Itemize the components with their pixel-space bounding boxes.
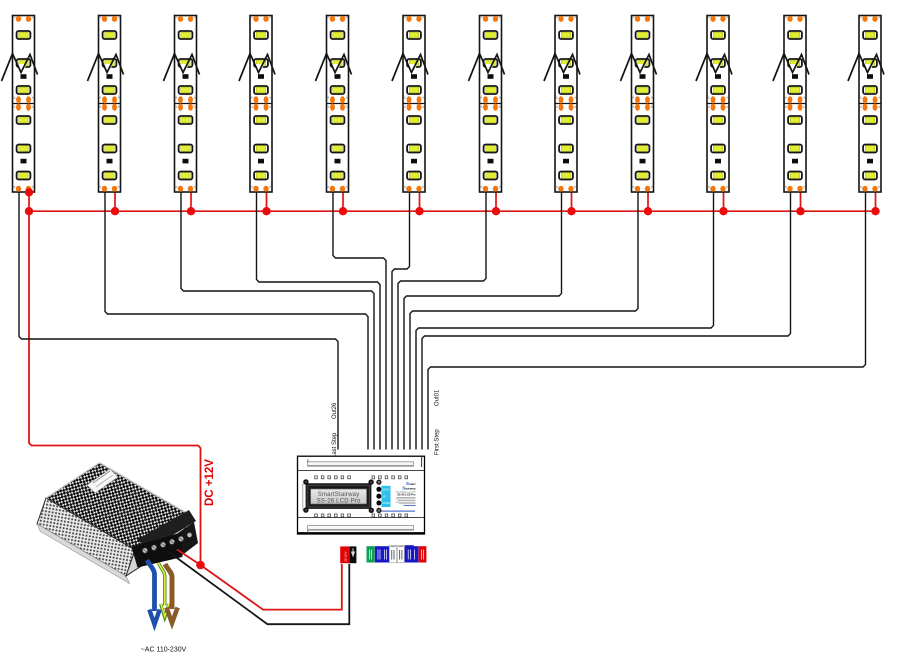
wire: strip 12 red +12V stub <box>875 190 877 211</box>
junction dot: strip 12 on +12V bus <box>871 207 879 215</box>
power supply PSU1 <box>37 463 198 584</box>
brand logo <box>402 481 416 491</box>
wire: strip 3 red +12V stub <box>190 190 192 211</box>
LED strip 8 <box>544 16 580 193</box>
terminal comb bottom <box>315 514 408 517</box>
junction dot: strip 7 on +12V bus <box>492 207 500 215</box>
wire: strip 6 output black wire to controller <box>392 190 410 450</box>
wire: red +12V feed from bus to power supply <box>29 211 201 565</box>
wire: strip 7 red +12V stub <box>495 190 497 211</box>
svg-text:DOWN: DOWN <box>382 502 390 505</box>
PSU front-left vented face <box>37 498 135 576</box>
wire: strip 5 output black wire to controller <box>333 190 386 450</box>
LED strip 6 <box>392 16 428 193</box>
panel screws <box>376 480 381 513</box>
wire: GND black PSU to controller <box>170 553 350 625</box>
LED strip 3 <box>164 16 200 193</box>
svg-text:Last Step: Last Step <box>332 432 338 458</box>
PSU top perforated face <box>46 463 190 550</box>
PSU front-left rim <box>37 524 130 584</box>
output terminal label strip <box>367 545 427 563</box>
wire: strip 5 red +12V stub <box>342 190 344 211</box>
PSU terminal screws <box>142 533 192 554</box>
junction dot: strip 4 on +12V bus <box>262 207 270 215</box>
svg-text:Smart: Smart <box>406 481 416 486</box>
wire: +12V red PSU to controller <box>177 550 201 566</box>
wire: strip 4 output black wire to controller <box>257 190 381 450</box>
junction dot: strip 11 on +12V bus <box>796 207 804 215</box>
junction dot: strip 8 on +12V bus <box>567 207 575 215</box>
LED strip 11 <box>773 16 809 193</box>
wire: strip 8 red +12V stub <box>571 190 573 211</box>
wire: strip 10 red +12V stub <box>723 190 725 211</box>
LCD display <box>306 483 372 509</box>
wire: strip 6 red +12V stub <box>419 190 421 211</box>
junction dot: strip 3 on +12V bus <box>187 207 195 215</box>
LED strip 9 <box>621 16 657 193</box>
junction dot: strip 2 on +12V bus <box>111 207 119 215</box>
wire: strip 2 output black wire to controller <box>105 190 368 450</box>
wire: AC blue (neutral) <box>147 560 160 625</box>
svg-text:UP: UP <box>382 495 386 498</box>
product label text <box>381 490 416 511</box>
svg-text:SmartStairway: SmartStairway <box>318 492 360 498</box>
junction dot: strip 9 on +12V bus <box>644 207 652 215</box>
LED strip 5 <box>316 16 352 193</box>
wire: AC brown (line) <box>165 564 178 623</box>
wire: strip 7 output black wire to controller <box>398 190 486 450</box>
top DIN slot <box>308 459 414 466</box>
LCD corner screws <box>303 479 374 513</box>
svg-text:DC+12V: DC+12V <box>344 551 348 561</box>
controller enclosure <box>298 456 425 534</box>
wire: strip 8 output black wire to controller <box>404 190 562 450</box>
buttons <box>376 487 381 506</box>
bottom DIN slot <box>308 526 414 533</box>
PSU terminal screw slots <box>143 537 183 552</box>
LED strip 1 <box>2 16 38 193</box>
LED strip 10 <box>696 16 732 193</box>
junction dot: +12V at PSU <box>196 561 205 570</box>
junction dot: strip 5 on +12V bus <box>339 207 347 215</box>
LED strip 7 <box>469 16 505 193</box>
wire: strip 1 red +12V stub <box>28 190 30 211</box>
wire: AC yellow-green (earth) <box>159 563 170 618</box>
junction dot: strip 10 on +12V bus <box>719 207 727 215</box>
DC input connector <box>340 546 356 563</box>
svg-text:DC +12V: DC +12V <box>204 459 216 506</box>
PSU label sticker <box>87 469 118 493</box>
button label block <box>382 486 391 507</box>
wire: strip 4 red +12V stub <box>266 190 268 211</box>
svg-text:~AC 110-230V: ~AC 110-230V <box>141 647 187 654</box>
svg-text:SS-26 LCD Pro: SS-26 LCD Pro <box>397 492 416 496</box>
junction dot: strip 1 pad <box>25 188 33 196</box>
PSU top rim highlight <box>46 463 190 515</box>
LCD left bracket <box>303 484 306 510</box>
wire: strip 9 red +12V stub <box>647 190 649 211</box>
junction dot: strip 1 on +12V bus <box>25 207 33 215</box>
svg-text:SS-26 LCD Pro: SS-26 LCD Pro <box>317 499 361 505</box>
wire: strip 2 red +12V stub <box>114 190 116 211</box>
PSU terminal block right side <box>178 522 198 556</box>
LED strip 4 <box>239 16 275 193</box>
svg-text:First Step: First Step <box>435 429 441 455</box>
LED strip 12 <box>848 16 884 193</box>
wire: strip 1 output black wire to controller <box>19 190 338 450</box>
wire: strip 10 output black wire to controller <box>416 190 714 450</box>
wire: strip 11 red +12V stub <box>800 190 802 211</box>
svg-text:Out01: Out01 <box>435 389 441 406</box>
junction dot: strip 6 on +12V bus <box>415 207 423 215</box>
wire: strip 12 output black wire to controller <box>428 190 866 450</box>
controller U1: SmartStairway SS-26 LCD Pro <box>298 456 425 534</box>
LED strip 2 <box>88 16 124 193</box>
svg-text:Stairway: Stairway <box>402 485 416 490</box>
terminal comb top <box>315 476 408 479</box>
PSU terminal block rear row <box>138 510 196 551</box>
svg-text:Out26: Out26 <box>332 402 338 419</box>
PSU terminal block <box>132 533 183 568</box>
svg-text:MENU: MENU <box>382 489 389 492</box>
wire: strip 3 output black wire to controller <box>181 190 374 450</box>
PSU right face <box>126 515 190 576</box>
wire: strip 11 output black wire to controller <box>422 190 791 450</box>
+12V bus wire <box>29 210 876 212</box>
wire: strip 9 output black wire to controller <box>410 190 638 450</box>
